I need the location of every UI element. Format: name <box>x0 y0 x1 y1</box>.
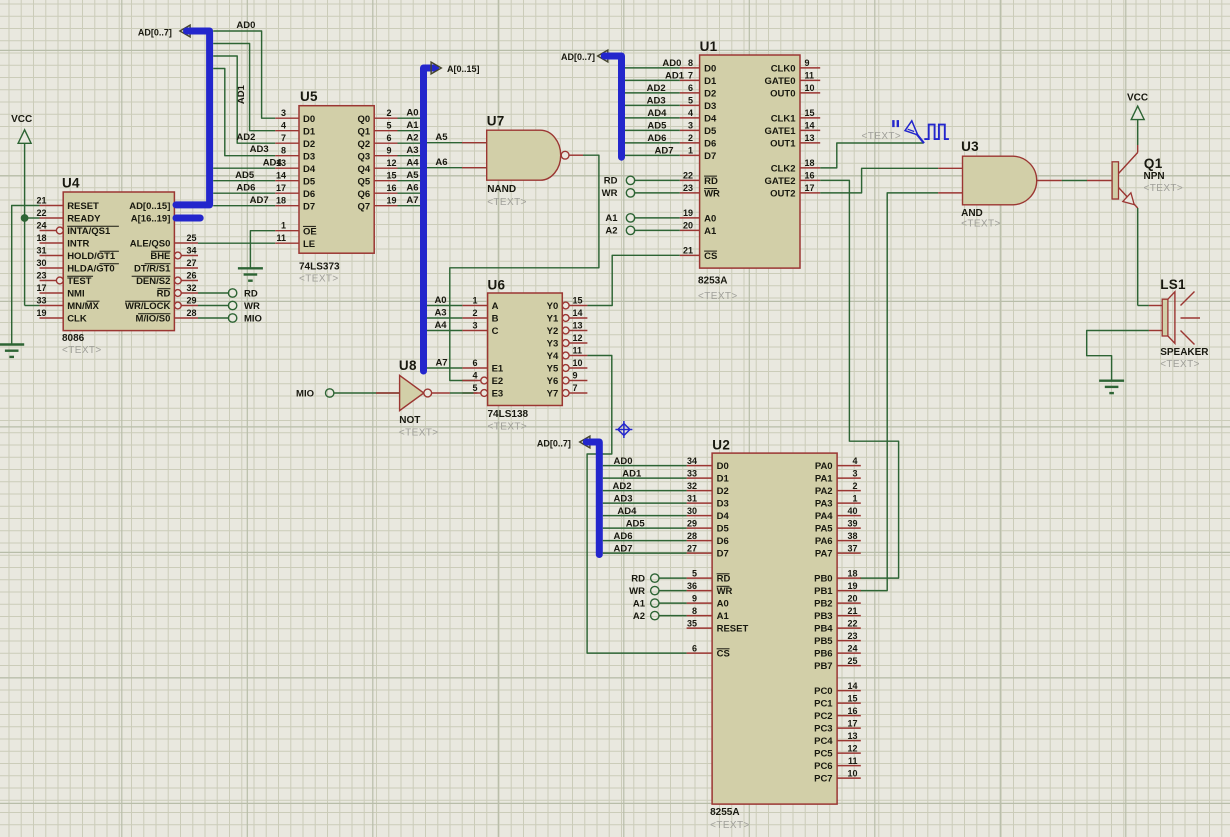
svg-text:U5: U5 <box>300 89 318 104</box>
power VCC terminal left <box>11 114 32 143</box>
svg-text:29: 29 <box>187 296 197 306</box>
svg-text:1: 1 <box>472 296 477 306</box>
svg-text:U1: U1 <box>700 39 718 54</box>
wire AD5 bus to U5.D5 <box>213 170 275 181</box>
svg-text:18: 18 <box>847 568 857 578</box>
origin marker <box>615 421 632 438</box>
svg-text:A5: A5 <box>435 132 448 143</box>
svg-text:D7: D7 <box>303 201 315 212</box>
svg-text:A[16..19]: A[16..19] <box>131 214 171 225</box>
svg-text:WR: WR <box>602 188 618 199</box>
svg-text:U4: U4 <box>62 176 80 191</box>
wire A4 bus to U6.C <box>427 320 462 331</box>
svg-text:PB5: PB5 <box>814 636 833 647</box>
svg-text:U2: U2 <box>712 438 730 453</box>
gate U7 NAND <box>487 114 569 208</box>
svg-text:<TEXT>: <TEXT> <box>698 291 738 302</box>
svg-text:20: 20 <box>847 593 857 603</box>
svg-text:40: 40 <box>847 506 857 516</box>
svg-text:Q5: Q5 <box>358 176 371 187</box>
svg-text:13: 13 <box>847 731 857 741</box>
svg-text:C: C <box>492 326 499 337</box>
svg-text:RD: RD <box>631 573 645 584</box>
svg-text:D1: D1 <box>717 474 730 485</box>
svg-text:7: 7 <box>573 383 578 393</box>
svg-text:74LS138: 74LS138 <box>488 409 529 420</box>
svg-text:AD0: AD0 <box>662 58 681 69</box>
svg-text:11: 11 <box>848 756 858 766</box>
svg-text:INTA/QS1: INTA/QS1 <box>67 226 111 237</box>
svg-text:5: 5 <box>688 96 693 106</box>
svg-text:DT/R/S1: DT/R/S1 <box>134 264 171 275</box>
svg-text:17: 17 <box>805 183 815 193</box>
svg-text:READY: READY <box>67 214 101 225</box>
power VCC terminal right <box>1127 93 1148 146</box>
svg-text:AD6: AD6 <box>236 182 255 193</box>
svg-text:A6: A6 <box>406 183 418 194</box>
svg-text:AD2: AD2 <box>613 481 632 492</box>
svg-text:D7: D7 <box>704 151 716 162</box>
wire AD6 bus to U5.D6 <box>213 182 275 193</box>
svg-text:4: 4 <box>688 108 693 118</box>
svg-text:11: 11 <box>276 233 286 243</box>
svg-text:6: 6 <box>692 643 697 653</box>
wire U2 PB1 to U3 input B <box>860 193 963 591</box>
svg-text:A1: A1 <box>633 598 646 609</box>
wire AD1 bus to U5.D1 <box>213 44 275 131</box>
svg-text:A4: A4 <box>406 158 419 169</box>
svg-text:1: 1 <box>281 221 286 231</box>
wire A6 from bus to U7 input <box>427 157 487 168</box>
svg-text:9: 9 <box>805 58 810 68</box>
svg-text:<TEXT>: <TEXT> <box>862 131 902 142</box>
svg-text:14: 14 <box>847 681 857 691</box>
svg-text:34: 34 <box>687 456 697 466</box>
wire U8 output to U6 E3 <box>432 392 478 394</box>
svg-text:15: 15 <box>847 693 857 703</box>
svg-text:GATE2: GATE2 <box>765 176 796 187</box>
svg-text:PC5: PC5 <box>814 749 833 760</box>
svg-text:PC6: PC6 <box>814 761 832 772</box>
svg-text:A1: A1 <box>605 213 618 224</box>
svg-text:PA3: PA3 <box>815 499 833 510</box>
svg-text:AD0: AD0 <box>236 20 255 31</box>
terminal RD (U2) <box>631 573 686 584</box>
svg-text:<TEXT>: <TEXT> <box>1144 183 1184 194</box>
svg-text:E1: E1 <box>492 364 504 375</box>
svg-text:A1: A1 <box>717 611 730 622</box>
svg-text:33: 33 <box>687 468 697 478</box>
svg-text:8: 8 <box>281 146 286 156</box>
svg-text:33: 33 <box>36 296 46 306</box>
svg-text:INTR: INTR <box>67 239 89 250</box>
svg-text:22: 22 <box>36 208 46 218</box>
wire AD7 bus to U5.D7 <box>213 195 275 206</box>
svg-text:23: 23 <box>36 271 46 281</box>
svg-text:VCC: VCC <box>11 114 32 125</box>
ground below U5 OE <box>238 267 263 269</box>
svg-text:D4: D4 <box>303 164 316 175</box>
svg-text:13: 13 <box>805 133 815 143</box>
svg-text:4: 4 <box>852 456 857 466</box>
svg-text:A1: A1 <box>704 226 717 237</box>
svg-text:38: 38 <box>847 531 857 541</box>
svg-text:RD: RD <box>244 289 258 300</box>
svg-text:A2: A2 <box>406 133 418 144</box>
svg-text:19: 19 <box>36 308 46 318</box>
svg-text:RD: RD <box>717 574 731 585</box>
svg-text:AD2: AD2 <box>236 132 255 143</box>
svg-text:5: 5 <box>387 121 392 131</box>
svg-text:D7: D7 <box>717 549 729 560</box>
svg-text:TEST: TEST <box>67 276 91 287</box>
svg-text:31: 31 <box>36 246 46 256</box>
svg-text:CLK: CLK <box>67 314 87 325</box>
wire AD2 bus to U5.D2 <box>213 56 275 143</box>
svg-text:D5: D5 <box>704 126 717 137</box>
digital clock generator on CLK2 <box>820 120 949 168</box>
svg-text:A7: A7 <box>435 357 447 368</box>
svg-text:23: 23 <box>847 631 857 641</box>
svg-text:PA6: PA6 <box>815 536 833 547</box>
svg-text:PC2: PC2 <box>814 711 832 722</box>
svg-text:RD: RD <box>157 289 171 300</box>
svg-text:4: 4 <box>281 121 286 131</box>
svg-text:OUT0: OUT0 <box>770 89 795 100</box>
svg-text:8: 8 <box>688 58 693 68</box>
svg-text:Q1: Q1 <box>1144 156 1163 171</box>
svg-text:25: 25 <box>187 233 197 243</box>
svg-text:A0: A0 <box>717 599 729 610</box>
bus AD[0..7] at U2 with arrow <box>537 436 599 554</box>
svg-text:AD3: AD3 <box>614 493 633 504</box>
wires AD0-AD7 bus to U2 data pins <box>603 456 687 555</box>
svg-text:PC7: PC7 <box>814 774 832 785</box>
wire AD0 bus to U5.D0 <box>213 20 275 118</box>
svg-text:WR/LOCK: WR/LOCK <box>125 301 171 312</box>
svg-text:4: 4 <box>472 371 477 381</box>
svg-text:AD2: AD2 <box>647 83 666 94</box>
svg-text:NOT: NOT <box>399 415 420 426</box>
svg-text:D6: D6 <box>303 189 315 200</box>
svg-text:RD: RD <box>704 176 718 187</box>
svg-text:WR: WR <box>717 586 733 597</box>
svg-text:17: 17 <box>847 718 857 728</box>
wire A7 bus to U6.E1 <box>427 357 462 368</box>
svg-text:AD3: AD3 <box>647 96 666 107</box>
svg-text:24: 24 <box>36 221 46 231</box>
speaker LS1 <box>1160 277 1209 370</box>
svg-text:19: 19 <box>387 196 397 206</box>
wire OE to ground <box>250 231 275 269</box>
svg-text:D2: D2 <box>717 486 729 497</box>
svg-text:D1: D1 <box>303 126 316 137</box>
svg-text:HLDA/GT0: HLDA/GT0 <box>67 264 115 275</box>
svg-text:6: 6 <box>387 133 392 143</box>
svg-text:Y7: Y7 <box>547 389 559 400</box>
svg-text:26: 26 <box>187 271 197 281</box>
svg-text:8: 8 <box>692 606 697 616</box>
wire AD3 bus to U5.D3 <box>213 69 275 156</box>
svg-text:9: 9 <box>573 371 578 381</box>
svg-text:12: 12 <box>573 333 583 343</box>
gate U8 NOT <box>399 358 439 438</box>
svg-text:Q4: Q4 <box>358 164 371 175</box>
bus AD vertical to U4 AD[0..15] <box>176 31 210 205</box>
svg-text:A0: A0 <box>434 295 446 306</box>
svg-text:A7: A7 <box>406 195 418 206</box>
terminal RD (U1) <box>604 176 680 187</box>
svg-text:2: 2 <box>387 108 392 118</box>
svg-text:30: 30 <box>36 258 46 268</box>
svg-text:A6: A6 <box>435 157 447 168</box>
svg-text:12: 12 <box>387 158 397 168</box>
svg-text:15: 15 <box>387 171 397 181</box>
svg-text:28: 28 <box>187 308 197 318</box>
wire A3 bus to U6.B <box>427 308 462 319</box>
svg-text:D0: D0 <box>717 461 729 472</box>
svg-text:SPEAKER: SPEAKER <box>1160 347 1209 358</box>
transistor Q1 NPN <box>1112 145 1183 208</box>
bus AD[0..7] at U1 with arrow <box>561 50 622 157</box>
svg-text:11: 11 <box>573 346 583 356</box>
svg-text:DEN/S2: DEN/S2 <box>136 276 170 287</box>
svg-text:E3: E3 <box>492 389 504 400</box>
svg-text:Q7: Q7 <box>358 201 371 212</box>
svg-text:U7: U7 <box>487 114 505 129</box>
svg-text:9: 9 <box>387 146 392 156</box>
svg-text:8255A: 8255A <box>710 807 739 818</box>
svg-text:7: 7 <box>688 71 693 81</box>
wire LS1 to ground <box>1087 331 1163 381</box>
svg-text:A0: A0 <box>406 108 418 119</box>
svg-text:Y3: Y3 <box>547 339 559 350</box>
wire GATE2 to U2 PB0 <box>820 180 898 578</box>
svg-text:32: 32 <box>687 481 697 491</box>
svg-text:AD[0..7]: AD[0..7] <box>561 52 595 62</box>
svg-text:CLK2: CLK2 <box>771 164 796 175</box>
svg-text:21: 21 <box>847 606 857 616</box>
svg-text:AD7: AD7 <box>250 195 269 206</box>
svg-text:Q2: Q2 <box>358 139 371 150</box>
svg-text:U6: U6 <box>488 278 506 293</box>
svg-text:PB2: PB2 <box>814 599 832 610</box>
gate U3 AND <box>961 139 1037 230</box>
wire U7 output to U6 E2 <box>450 155 599 380</box>
svg-text:13: 13 <box>573 321 583 331</box>
svg-text:21: 21 <box>683 246 693 256</box>
svg-text:5: 5 <box>692 568 697 578</box>
bus stub A[16..19] on U4 <box>176 215 200 222</box>
svg-text:OUT1: OUT1 <box>770 139 796 150</box>
svg-text:D2: D2 <box>303 139 315 150</box>
svg-text:18: 18 <box>276 196 286 206</box>
svg-text:Q3: Q3 <box>358 151 371 162</box>
svg-text:30: 30 <box>687 506 697 516</box>
svg-text:Y4: Y4 <box>547 351 559 362</box>
svg-text:LS1: LS1 <box>1160 277 1186 292</box>
wire VCC to READY and MN/MX <box>25 143 40 305</box>
wire MIO terminal to U8 input <box>334 392 400 394</box>
svg-text:5: 5 <box>472 383 477 393</box>
svg-text:6: 6 <box>688 83 693 93</box>
svg-text:24: 24 <box>847 643 857 653</box>
svg-text:8253A: 8253A <box>698 276 727 287</box>
svg-text:OUT2: OUT2 <box>770 189 795 200</box>
svg-text:ALE/QS0: ALE/QS0 <box>130 239 171 250</box>
wire U3 output to Q1 base <box>1037 180 1112 182</box>
svg-text:AD[0..7]: AD[0..7] <box>537 439 571 449</box>
svg-text:D4: D4 <box>704 114 717 125</box>
svg-text:14: 14 <box>573 308 583 318</box>
svg-text:WR: WR <box>629 586 645 597</box>
svg-text:HOLD/GT1: HOLD/GT1 <box>67 251 116 262</box>
svg-text:Q1: Q1 <box>358 126 371 137</box>
svg-text:11: 11 <box>805 71 815 81</box>
svg-text:<TEXT>: <TEXT> <box>1160 359 1200 370</box>
svg-text:12: 12 <box>847 743 857 753</box>
svg-text:PB1: PB1 <box>814 586 833 597</box>
svg-text:A2: A2 <box>605 226 617 237</box>
svg-text:21: 21 <box>36 196 46 206</box>
svg-text:CLK0: CLK0 <box>771 64 796 75</box>
svg-text:D6: D6 <box>717 536 729 547</box>
svg-text:<TEXT>: <TEXT> <box>299 274 339 285</box>
svg-text:35: 35 <box>687 618 697 628</box>
svg-text:WR: WR <box>704 189 720 200</box>
svg-text:PB4: PB4 <box>814 624 833 635</box>
svg-text:36: 36 <box>687 581 697 591</box>
svg-text:AD[0..7]: AD[0..7] <box>138 28 172 38</box>
svg-text:Y1: Y1 <box>547 314 559 325</box>
svg-text:BHE: BHE <box>150 251 170 262</box>
svg-text:AND: AND <box>961 208 983 219</box>
svg-text:A1: A1 <box>406 120 419 131</box>
terminal A2 (U2) <box>633 611 687 622</box>
svg-text:NAND: NAND <box>487 184 516 195</box>
svg-text:AD[0..15]: AD[0..15] <box>129 201 170 212</box>
terminal MIO (U8 input) <box>296 389 334 400</box>
bus A[0..15] vertical with arrow <box>424 62 480 371</box>
wire AD4 bus to U5.D4 <box>213 157 282 168</box>
svg-text:3: 3 <box>472 321 477 331</box>
svg-text:A4: A4 <box>434 320 447 331</box>
svg-text:CLK1: CLK1 <box>771 114 797 125</box>
wire A5 from bus to U7 input <box>427 132 487 143</box>
bus AD[0..7] top-left with arrow <box>138 25 190 37</box>
svg-text:E2: E2 <box>492 376 504 387</box>
svg-text:A3: A3 <box>434 308 446 319</box>
wire RESET to ground <box>12 206 40 345</box>
svg-text:3: 3 <box>852 468 857 478</box>
svg-text:14: 14 <box>276 171 286 181</box>
svg-text:NMI: NMI <box>67 289 84 300</box>
svg-text:D4: D4 <box>717 511 730 522</box>
svg-text:VCC: VCC <box>1127 93 1148 104</box>
svg-text:PB3: PB3 <box>814 611 832 622</box>
svg-text:1: 1 <box>852 493 857 503</box>
svg-text:14: 14 <box>805 121 815 131</box>
svg-text:39: 39 <box>847 518 857 528</box>
svg-text:PA1: PA1 <box>815 474 833 485</box>
svg-text:16: 16 <box>805 171 815 181</box>
svg-text:D1: D1 <box>704 76 717 87</box>
terminal WR (8086) <box>198 301 260 312</box>
svg-text:M/IO/S0: M/IO/S0 <box>136 314 171 325</box>
svg-text:15: 15 <box>573 296 583 306</box>
wires AD0-AD7 bus to U1 data pins <box>625 58 685 157</box>
svg-text:RESET: RESET <box>67 201 99 212</box>
svg-text:CS: CS <box>717 649 730 660</box>
wire OUT2 to U3 input A <box>820 168 962 193</box>
svg-text:OE: OE <box>303 226 317 237</box>
svg-text:AD3: AD3 <box>250 144 269 155</box>
svg-text:22: 22 <box>847 618 857 628</box>
svg-text:A0: A0 <box>704 214 716 225</box>
svg-text:PB0: PB0 <box>814 574 832 585</box>
terminal RD (8086) <box>198 289 258 300</box>
svg-text:PB7: PB7 <box>814 661 832 672</box>
svg-text:AD5: AD5 <box>647 121 667 132</box>
svg-text:AD6: AD6 <box>647 133 666 144</box>
svg-text:A3: A3 <box>406 145 418 156</box>
svg-text:WR: WR <box>244 301 260 312</box>
svg-text:D0: D0 <box>704 64 716 75</box>
svg-text:Y6: Y6 <box>547 376 559 387</box>
svg-text:29: 29 <box>687 518 697 528</box>
svg-text:D5: D5 <box>303 176 316 187</box>
svg-text:AD1: AD1 <box>665 71 685 82</box>
svg-text:Y5: Y5 <box>547 364 559 375</box>
svg-text:18: 18 <box>805 158 815 168</box>
svg-text:PA0: PA0 <box>815 461 833 472</box>
svg-text:AD6: AD6 <box>614 531 633 542</box>
svg-text:22: 22 <box>683 171 693 181</box>
svg-text:6: 6 <box>472 358 477 368</box>
svg-text:3: 3 <box>281 108 286 118</box>
svg-text:AD1: AD1 <box>622 468 642 479</box>
wire ALE to LE <box>198 242 275 244</box>
svg-text:PA7: PA7 <box>815 549 833 560</box>
svg-text:34: 34 <box>187 246 197 256</box>
wires U5 outputs A0-A7 to bus <box>398 108 421 207</box>
svg-text:27: 27 <box>687 543 697 553</box>
svg-text:D3: D3 <box>717 499 729 510</box>
svg-text:<TEXT>: <TEXT> <box>62 345 102 356</box>
svg-text:D2: D2 <box>704 89 716 100</box>
svg-text:A: A <box>492 301 499 312</box>
terminal MIO (8086) <box>198 314 262 325</box>
svg-text:2: 2 <box>852 481 857 491</box>
svg-text:2: 2 <box>472 308 477 318</box>
svg-text:15: 15 <box>805 108 815 118</box>
svg-text:PC0: PC0 <box>814 686 832 697</box>
terminal A1 (U1) <box>605 213 679 224</box>
svg-text:AD7: AD7 <box>614 543 633 554</box>
svg-text:D3: D3 <box>303 151 315 162</box>
wire U6.Y0 to U1 CS <box>587 255 679 305</box>
svg-text:18: 18 <box>36 233 46 243</box>
svg-text:MN/MX: MN/MX <box>67 301 99 312</box>
junction dot on READY <box>21 215 27 221</box>
latch U5 74LS373 <box>275 89 397 285</box>
svg-text:1: 1 <box>688 146 693 156</box>
svg-text:PC1: PC1 <box>814 699 833 710</box>
svg-text:U8: U8 <box>399 358 417 373</box>
svg-text:10: 10 <box>847 768 857 778</box>
svg-text:25: 25 <box>847 656 857 666</box>
svg-text:31: 31 <box>687 493 697 503</box>
